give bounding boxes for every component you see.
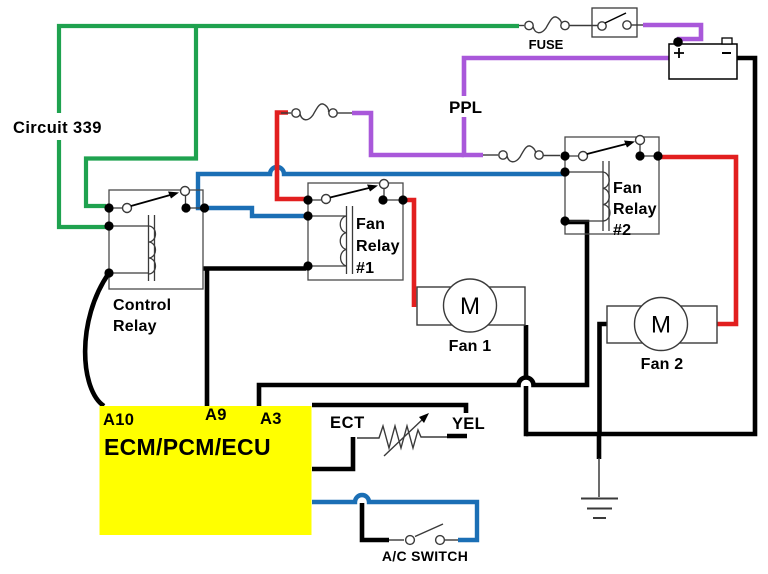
node fan relay 2 NO: [635, 151, 644, 160]
wire red fuse to fan relay 1: [277, 113, 306, 200]
wire black ECM to ECT top: [312, 405, 466, 413]
wire black A10 curve to control relay coil: [85, 273, 109, 406]
motor fan 1: [417, 279, 525, 332]
wire red fan relay 2 to fan 2: [659, 157, 736, 324]
svg-text:Fan: Fan: [613, 180, 642, 197]
node control relay output: [200, 203, 209, 212]
node fan relay 2 coil bottom: [560, 216, 569, 225]
node battery positive: [673, 37, 683, 47]
fuse FUSE main: [519, 17, 598, 33]
thermistor ECT: [357, 418, 447, 456]
switch fan relay 2: [565, 136, 658, 161]
wire green Circuit 339 main: [59, 26, 519, 227]
node fan relay 1 coil top: [303, 211, 312, 220]
svg-text:M: M: [460, 293, 480, 320]
node fan relay 1 NO: [378, 195, 387, 204]
svg-text:Fan 2: Fan 2: [641, 356, 684, 373]
svg-text:ECM/PCM/ECU: ECM/PCM/ECU: [104, 434, 271, 460]
ignition switch: [592, 8, 643, 37]
wire black battery negative: [526, 58, 755, 434]
svg-text:Fan 1: Fan 1: [449, 338, 492, 355]
svg-text:A/C SWITCH: A/C SWITCH: [382, 548, 468, 564]
svg-text:A9: A9: [205, 406, 227, 424]
svg-text:FUSE: FUSE: [529, 37, 564, 52]
wire black ground stub: [597, 434, 602, 459]
node control relay pivot: [104, 203, 113, 212]
svg-text:#1: #1: [356, 260, 374, 277]
label Fan Relay 2: [613, 180, 657, 239]
ECM box: [100, 406, 312, 535]
node fan relay 1 input: [303, 195, 312, 204]
node control relay coil top: [104, 221, 113, 230]
svg-text:Relay: Relay: [613, 201, 657, 218]
node fan relay 2 pivot: [560, 151, 569, 160]
svg-text:Fan: Fan: [356, 216, 385, 233]
node fan relay 1 output: [398, 195, 407, 204]
svg-text:ECT: ECT: [330, 414, 365, 432]
node fan relay 2 coil top: [560, 167, 569, 176]
ground: [581, 458, 618, 518]
wire red fan relay 1 to fan 1: [404, 200, 414, 307]
svg-text:#2: #2: [613, 222, 631, 239]
svg-text:YEL: YEL: [452, 415, 485, 433]
coil fan relay 2: [567, 161, 610, 231]
wire blue control relay to fan relay 1: [205, 208, 308, 216]
wire black fan relay 2 coil to A3 (hops over fan 1 wire): [259, 222, 587, 406]
coil control relay: [111, 215, 156, 281]
svg-text:Relay: Relay: [113, 318, 157, 335]
wire blue relay bus top: [198, 167, 565, 208]
terminal YEL bar: [447, 434, 467, 439]
node fan relay 1 coil bottom: [303, 261, 312, 270]
wire purple battery feed PPL: [464, 58, 669, 155]
svg-text:M: M: [651, 312, 671, 339]
wire black fan 2 to ground junction: [600, 324, 608, 436]
wire blue ECM to AC switch: [312, 495, 477, 540]
switch control relay: [109, 187, 204, 213]
svg-text:A3: A3: [260, 410, 282, 428]
svg-text:Relay: Relay: [356, 238, 400, 255]
battery: [669, 38, 737, 79]
fuse secondary left: [281, 104, 352, 120]
node control relay coil bottom: [104, 268, 113, 277]
wire black A9 to fan relay 1 coil: [203, 269, 306, 407]
label PPL: [445, 96, 485, 117]
wire black ECM to ECT sensor: [312, 437, 353, 469]
switch AC: [389, 524, 458, 544]
svg-text:PPL: PPL: [449, 98, 482, 117]
label Control Relay: [113, 297, 171, 335]
relay box Fan Relay 1: [308, 183, 403, 280]
arrowhead thermistor: [419, 413, 429, 423]
node control relay NO: [181, 203, 190, 212]
wire green Circuit 339 branch: [86, 24, 196, 206]
relay box Control Relay: [109, 190, 203, 289]
fuse secondary right: [483, 146, 560, 162]
node fan relay 2 output: [653, 151, 662, 160]
wire purple ignition switch to battery: [643, 25, 701, 39]
coil fan relay 1: [310, 206, 353, 274]
wire black fan 1 to ground bus: [524, 325, 529, 436]
wire purple fuse branch: [352, 113, 464, 155]
motor fan 2: [607, 298, 717, 351]
switch fan relay 1: [308, 180, 403, 204]
svg-text:A10: A10: [103, 411, 134, 429]
svg-text:Control: Control: [113, 297, 171, 314]
svg-text:Circuit 339: Circuit 339: [13, 119, 102, 137]
wire black AC switch leg: [362, 503, 389, 540]
label Fan Relay 1: [356, 216, 400, 277]
relay box Fan Relay 2: [565, 137, 659, 234]
label Circuit 339: [10, 113, 108, 140]
